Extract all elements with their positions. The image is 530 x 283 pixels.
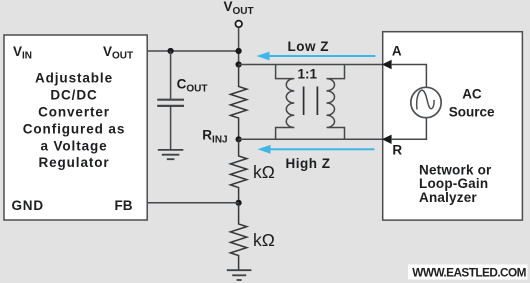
svg-text:DC/DC: DC/DC — [50, 88, 97, 103]
svg-text:Converter: Converter — [38, 104, 110, 119]
svg-text:Regulator: Regulator — [38, 155, 109, 170]
svg-text:Network or: Network or — [419, 162, 492, 177]
ground (COUT) — [158, 150, 184, 159]
analyzer block U2 — [383, 32, 523, 220]
AC source sine glyph — [417, 90, 434, 109]
svg-text:a Voltage: a Voltage — [40, 138, 107, 153]
watermark — [408, 265, 528, 280]
junction: FB node — [236, 200, 242, 206]
wire: bottom injection node to analyzer R — [239, 138, 382, 140]
wire: VOUT terminal to injection node — [238, 28, 240, 65]
regulator block U1 — [4, 35, 147, 220]
svg-text:Source: Source — [449, 105, 495, 120]
svg-text:R: R — [392, 142, 402, 157]
svg-text:Configured as: Configured as — [23, 121, 125, 136]
junction: RINJ bottom node — [236, 136, 242, 142]
svg-text:A: A — [392, 44, 402, 59]
wire: block VOUT to main node — [147, 50, 238, 52]
resistor RINJ (vertical zigzag) — [230, 65, 246, 140]
wire: A to AC source — [391, 65, 426, 88]
transformer T1 right winding — [327, 65, 345, 140]
terminal VOUT open circle — [235, 21, 242, 28]
resistor R1 kOhm (upper divider) — [230, 139, 246, 203]
arrowhead into R — [382, 135, 392, 144]
arrowhead into A — [382, 60, 392, 69]
transformer T1 left winding — [276, 65, 295, 140]
wire: FB node to block FB pin — [147, 202, 238, 204]
svg-text:Loop-Gain: Loop-Gain — [419, 176, 488, 191]
Low Z arrow (cyan) — [257, 52, 376, 61]
ground (divider bottom) — [227, 270, 252, 280]
junction: VOUT node — [236, 48, 242, 54]
transformer core lines — [303, 87, 305, 116]
junction: injection top node — [236, 61, 242, 67]
svg-text:AC: AC — [462, 86, 482, 101]
svg-text:Low Z: Low Z — [288, 39, 330, 54]
svg-text:High Z: High Z — [286, 156, 331, 171]
svg-text:FB: FB — [115, 198, 133, 213]
svg-text:Analyzer: Analyzer — [419, 190, 477, 205]
svg-text:kΩ: kΩ — [253, 162, 275, 182]
svg-text:kΩ: kΩ — [253, 230, 275, 250]
resistor R2 kOhm (lower divider) — [230, 203, 246, 270]
High Z arrow (cyan) — [258, 145, 375, 154]
AC source circle — [411, 87, 441, 117]
junction: COUT tap — [168, 48, 174, 54]
svg-text:1:1: 1:1 — [298, 67, 318, 82]
wire: top injection node to analyzer A — [239, 64, 382, 66]
capacitor COUT — [157, 51, 184, 149]
svg-text:Adjustable: Adjustable — [35, 71, 113, 86]
svg-text:GND: GND — [12, 198, 44, 213]
wire: AC source to R — [391, 118, 426, 140]
block description text — [23, 71, 125, 171]
svg-text:WWW.EASTLED.COM: WWW.EASTLED.COM — [412, 266, 526, 280]
